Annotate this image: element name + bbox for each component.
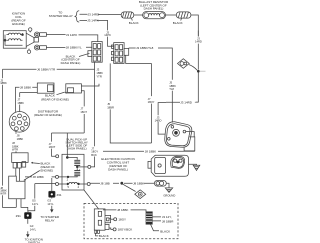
svg-text:18GY/BCK: 18GY/BCK <box>118 228 133 232</box>
svg-text:18BK: 18BK <box>96 71 103 75</box>
dual pickup connector (3-blade) <box>12 153 28 163</box>
wire coil+ to junction <box>46 35 97 42</box>
svg-text:J8 18BR: J8 18BR <box>162 219 174 223</box>
coil - terminal <box>27 50 30 53</box>
ballast right connector <box>176 12 191 18</box>
case connector blob <box>171 156 185 168</box>
svg-text:G3: G3 <box>30 224 34 228</box>
wire coil- to connector block <box>46 46 91 48</box>
svg-text:G3: G3 <box>47 199 51 203</box>
drop to relay pin top-left circle <box>51 133 53 142</box>
svg-text:J3 14PK: J3 14PK <box>66 33 77 37</box>
svg-text:#31: #31 <box>16 214 21 218</box>
case ground <box>189 164 197 165</box>
svg-text:14RD: 14RD <box>155 118 162 122</box>
svg-text:TL8: TL8 <box>169 87 174 91</box>
svg-text:18GY: 18GY <box>118 218 126 222</box>
svg-text:DASH PANEL): DASH PANEL) <box>61 61 81 65</box>
ignition coil label <box>11 12 26 27</box>
svg-text:J3 18BK/TL8: J3 18BK/TL8 <box>136 46 154 50</box>
coil internal leads <box>5 33 23 45</box>
distributor bottom wire <box>15 132 17 134</box>
gray stub right <box>200 70 206 72</box>
wire J5 18BR (block pin down to bus) <box>109 63 111 101</box>
svg-text:ENGINE): ENGINE) <box>12 22 25 26</box>
wire J3 14PK (starter down to connector) <box>80 20 114 46</box>
diagonal wire from relay into box <box>84 190 99 209</box>
coil + terminal <box>29 28 32 31</box>
svg-text:RELAY: RELAY <box>45 219 55 223</box>
relay internals <box>66 156 69 159</box>
svg-text:(REAR OF ENGINE): (REAR OF ENGINE) <box>41 97 69 101</box>
svg-text:BLACK: BLACK <box>173 21 183 25</box>
svg-text:BCK: BCK <box>91 153 97 157</box>
svg-text:J8 18BK: J8 18BK <box>117 208 128 212</box>
svg-text:BLACK: BLACK <box>129 21 139 25</box>
ground symbol <box>165 188 172 193</box>
connector block pair right block <box>114 43 124 64</box>
left edge vertical labels <box>0 78 7 85</box>
diagonal diamond to wire <box>189 65 197 71</box>
right vertical J3 14RD <box>195 31 198 103</box>
ECU right pin wire <box>186 132 195 137</box>
wires into distributor <box>16 87 38 112</box>
brace <box>75 11 79 22</box>
svg-text:14YL: 14YL <box>47 202 54 206</box>
wire J6 18BK/YTR (left long horizontal) <box>3 62 95 78</box>
ballast wires <box>134 15 198 37</box>
pigtail 18GY/BCK <box>109 228 113 229</box>
svg-text:J8 18BK: J8 18BK <box>33 175 44 179</box>
ballast resistor R1 <box>143 12 166 19</box>
ignition switch connector (striped) <box>146 212 152 224</box>
svg-text:WTR: WTR <box>0 192 6 196</box>
relay box <box>62 154 84 190</box>
svg-text:G5: G5 <box>32 199 36 203</box>
svg-text:14PK: 14PK <box>104 33 111 37</box>
relay label <box>66 137 88 150</box>
svg-text:18OT: 18OT <box>49 145 56 149</box>
wire box B to vertical <box>81 84 99 86</box>
electronic ignition control unit label <box>101 157 135 172</box>
svg-text:J3: J3 <box>96 67 99 71</box>
svg-text:J8 18BK: J8 18BK <box>133 182 144 186</box>
inline capsule connector <box>154 181 166 187</box>
vertical J3 18BK/YTR from block <box>96 67 103 78</box>
TO STARTER RELAY (top) <box>49 11 73 18</box>
ballast resistor label <box>139 0 169 10</box>
svg-text:YTR: YTR <box>96 74 101 78</box>
svg-text:BLACK: BLACK <box>99 234 109 238</box>
svg-text:DASH PANEL): DASH PANEL) <box>67 147 87 151</box>
ECU connector shield <box>164 121 193 149</box>
svg-text:#31: #31 <box>57 193 62 197</box>
BLACK (REAR OF ENGINE) label 2 <box>41 161 56 172</box>
relay coil row <box>56 183 59 186</box>
wire block tab down-right-down <box>126 55 152 96</box>
svg-text:J5: J5 <box>107 102 110 106</box>
svg-text:J8 18BK: J8 18BK <box>145 149 156 153</box>
wire2 drop (G5 14YL) <box>34 184 36 199</box>
svg-text:J3 14RD: J3 14RD <box>180 101 193 105</box>
svg-text:14RD: 14RD <box>195 39 202 43</box>
dashed connector detail box <box>84 203 178 238</box>
bullet connector bottom <box>34 45 39 50</box>
ECU bracket tab <box>184 137 195 151</box>
connector block pair (dash panel) left block <box>92 42 102 63</box>
coil secondary winding <box>7 39 23 41</box>
svg-text:GROUND: GROUND <box>163 193 175 197</box>
svg-text:J8 18BK: J8 18BK <box>20 86 31 90</box>
svg-text:J3 14PK: J3 14PK <box>87 19 98 23</box>
pickup coil box <box>9 176 25 199</box>
drop to relay top dot <box>66 133 68 156</box>
wire J3 14RD (starter to ballast) <box>80 13 122 15</box>
svg-text:18BK: 18BK <box>17 101 24 105</box>
ECU ground bus wire <box>90 182 154 184</box>
svg-text:DASH PANEL): DASH PANEL) <box>144 7 164 11</box>
ignition coil C1 body <box>3 31 26 49</box>
svg-text:J3 14RD: J3 14RD <box>88 12 101 16</box>
svg-text:18BK: 18BK <box>0 81 7 85</box>
svg-text:J8 18B: J8 18B <box>100 182 109 186</box>
svg-text:14YL: 14YL <box>30 228 37 232</box>
svg-text:(REAR OF ENGINE): (REAR OF ENGINE) <box>34 113 62 117</box>
svg-text:STARTER RELAY: STARTER RELAY <box>49 14 73 18</box>
junction dot <box>197 70 200 73</box>
svg-text:18BR: 18BR <box>107 106 114 110</box>
diagonal to diamond 2 <box>123 184 136 191</box>
distributor connector (side view) <box>94 209 105 230</box>
diamond connector 2 <box>135 190 146 199</box>
BLACK labels under ballast <box>132 18 182 20</box>
wire J3 18BK/TL8 (block to ECU) <box>129 48 173 80</box>
svg-text:DASH PANEL): DASH PANEL) <box>108 167 128 171</box>
splice #31 (left) <box>25 213 32 219</box>
y133 bus <box>52 132 85 134</box>
svg-text:18O7: 18O7 <box>80 110 87 114</box>
bullet connector top <box>34 32 39 37</box>
svg-text:BLACK: BLACK <box>160 230 170 234</box>
wire J8 18BK to bracket <box>103 150 195 152</box>
svg-text:ENGINE): ENGINE) <box>41 168 54 172</box>
riser from coil connector box <box>83 114 85 133</box>
distributor <box>9 112 30 133</box>
wire to ground <box>166 183 169 187</box>
label J7 18OY BCK <box>91 146 98 156</box>
wire J3 14RD horizontal to ECU <box>158 102 180 134</box>
svg-text:J6 18BK/YTR: J6 18BK/YTR <box>37 67 56 71</box>
wire J8 18BK box to relay pin1 <box>25 176 56 178</box>
pigtail 18GY <box>111 218 114 220</box>
coil primary winding <box>7 33 23 35</box>
svg-text:18OY: 18OY <box>148 100 155 104</box>
control unit case <box>151 155 188 176</box>
svg-text:WTR: WTR <box>12 148 18 152</box>
svg-text:14YL: 14YL <box>32 202 39 206</box>
BLACK (CENTER OF DASH PANEL) label <box>61 54 81 65</box>
ballast left connector <box>121 12 134 18</box>
svg-text:18BK: 18BK <box>17 137 24 141</box>
coil connector box B <box>66 84 82 93</box>
splice #31 (right) <box>51 178 53 191</box>
coil tower wedge <box>26 33 34 46</box>
BLACK label bottom <box>96 233 99 236</box>
svg-text:J8 18BK/YL: J8 18BK/YL <box>66 46 82 50</box>
coil connector box A <box>37 83 54 93</box>
BLACK (REAR OF ENGINE) label 1 <box>41 94 69 102</box>
wire2 to relay pin <box>35 183 56 185</box>
distributor label <box>34 110 62 118</box>
wire J8 18BK in box <box>103 210 146 212</box>
diamond connector (top right) <box>178 59 190 69</box>
